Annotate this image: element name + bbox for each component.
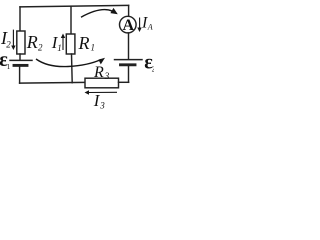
svg-text:R: R [93,64,104,81]
svg-text:A: A [147,23,153,32]
wire bottom right segment [119,81,129,83]
wire top [20,5,129,7]
wire R2 bottom to battery e1 [19,54,21,60]
svg-text:R: R [26,32,38,52]
svg-text:1: 1 [7,63,11,71]
loop arrow top [81,8,118,17]
resistor R1 [66,34,75,54]
svg-text:2: 2 [6,40,11,50]
svg-text:A: A [123,17,135,34]
battery e1 short plate [14,64,27,67]
current arrow I1 [61,34,65,51]
ammeter A [120,16,137,33]
current arrow IA [137,18,141,33]
svg-text:1: 1 [91,43,96,53]
wire ammeter to battery e2 [128,33,130,59]
wire middle upper [70,6,72,34]
svg-text:3: 3 [99,101,105,111]
battery e2 long plate [115,59,143,61]
wire left lower [19,67,21,84]
svg-text:1: 1 [57,43,62,53]
battery e2 short plate [121,63,136,66]
current arrow I3 [85,90,118,94]
battery e1 long plate [10,59,32,61]
resistor R2 [17,31,25,54]
svg-text:R: R [78,33,90,53]
wire left upper [19,7,21,31]
wire bottom left segment [20,81,85,84]
resistor R3 [85,78,119,88]
wire middle lower [71,54,74,83]
svg-text:3: 3 [104,71,110,81]
svg-text:2: 2 [38,43,43,53]
svg-text:2: 2 [152,65,154,73]
current arrow I2 [11,30,15,50]
wire right upper [128,5,130,16]
loop arrow bottom [36,58,105,67]
wire right lower [128,66,130,82]
